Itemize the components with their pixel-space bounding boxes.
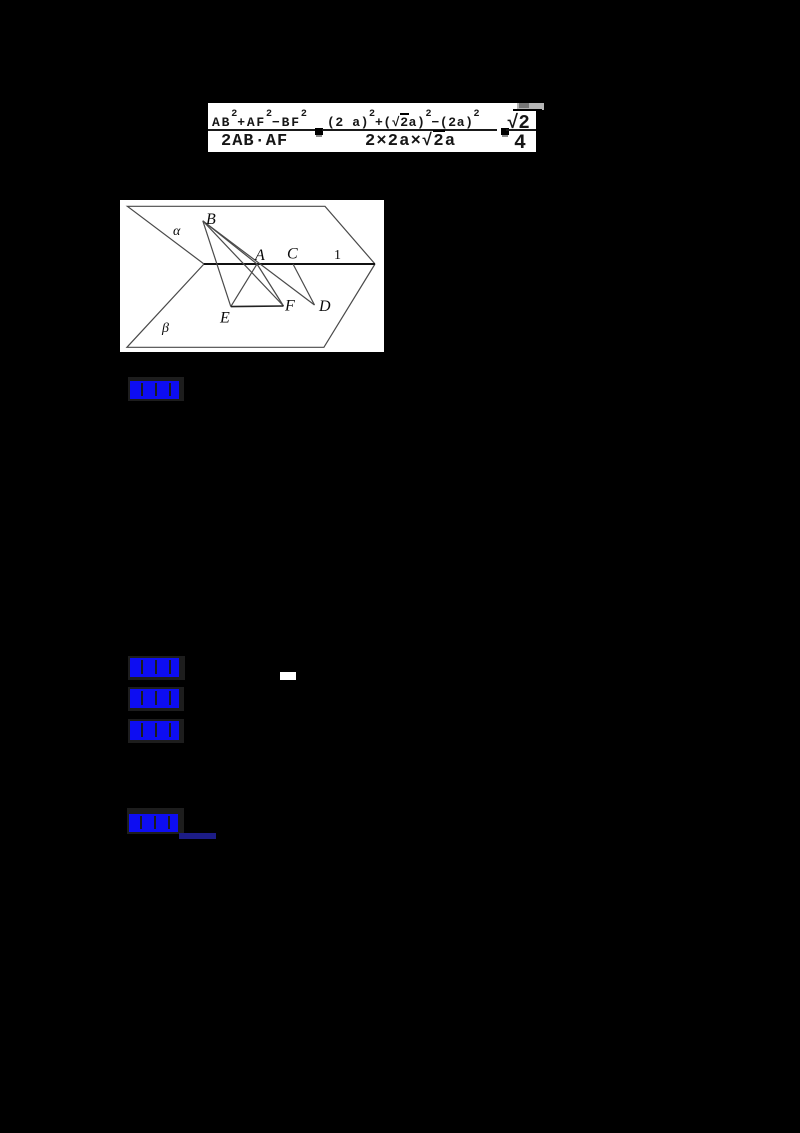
labels <box>161 211 341 336</box>
wire A-E <box>231 264 257 307</box>
svg-text:β: β <box>161 321 169 336</box>
wire A-F <box>257 264 284 306</box>
svg-text:1: 1 <box>334 248 341 263</box>
navy underline <box>179 833 217 839</box>
fraction 2 numerator (2 a)^2+(√2a)^2-(2a)^2 <box>327 115 480 130</box>
svg-text:E: E <box>219 310 230 327</box>
svg-text:A: A <box>254 247 265 264</box>
svg-text:B: B <box>206 211 216 228</box>
blue label 4 (fenxi) <box>128 719 184 744</box>
blue label 2 (kaodian) <box>128 656 185 680</box>
blue label 3 (zhuanti) <box>128 687 184 711</box>
equals square 1 <box>315 128 323 135</box>
formula white box <box>208 103 536 152</box>
fraction 2 denominator 2×2a×√2a <box>365 132 456 151</box>
blue label 1 (dianping) <box>128 377 184 401</box>
svg-text:F: F <box>284 298 295 315</box>
fraction 1 bar <box>208 129 316 131</box>
plane alpha outline <box>127 206 375 347</box>
sqrt2 over 4 <box>507 112 530 134</box>
svg-text:D: D <box>318 298 331 315</box>
wire E-F <box>231 305 284 308</box>
wire B-E <box>203 221 231 307</box>
plane beta outline <box>127 264 375 347</box>
wire C-D <box>293 264 315 305</box>
fraction 1 numerator AB^2+AF^2-BF^2 <box>212 115 307 130</box>
svg-text:α: α <box>173 224 181 239</box>
wire B-D <box>203 221 315 305</box>
svg-text:C: C <box>287 246 298 263</box>
fraction 2 bar <box>322 129 497 131</box>
gray smudge top right <box>517 103 544 110</box>
diagram white box <box>120 200 384 352</box>
equals square 2 <box>501 128 509 135</box>
fraction 1 denominator 2AB·AF <box>221 132 288 151</box>
wire B-F <box>203 221 284 306</box>
wire B-A <box>203 221 257 264</box>
blue label 5 (jieda) <box>127 808 184 834</box>
white small box <box>280 672 296 681</box>
line l <box>204 263 375 265</box>
